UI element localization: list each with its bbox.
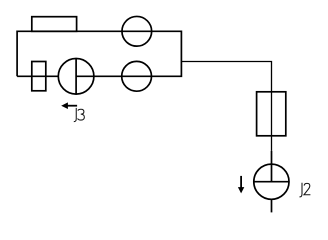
flow source J3 (circle with vertical diameter) [58, 59, 94, 95]
label J3 [74, 108, 85, 122]
gauge circle (top) [122, 16, 152, 46]
orifice rectangle (vertical, right branch) [257, 92, 286, 136]
top rectangle port P1 [32, 17, 77, 32]
block B1 outline [17, 31, 181, 76]
flow source J2 (circle with top stub and horizontal diameter) [254, 151, 289, 213]
wire from block right edge to vertical branch [181, 62, 271, 92]
arrow J2 (pointing down) [238, 176, 244, 194]
gauge circle (bottom) [122, 61, 152, 91]
label J2 [300, 183, 311, 197]
orifice rectangle (bottom left) [32, 62, 46, 91]
arrow J3 (pointing left) [61, 102, 77, 109]
wire through orifice [271, 92, 273, 136]
wire from orifice to J2 stub [271, 136, 273, 151]
